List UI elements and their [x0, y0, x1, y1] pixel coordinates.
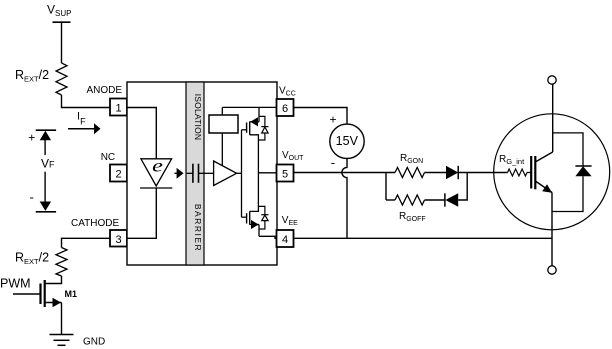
- freewheeling diode D3: [575, 166, 591, 176]
- IGBT Q3: [531, 152, 553, 193]
- UVLO block: [209, 107, 238, 166]
- resistor RG_int: [508, 169, 528, 176]
- svg-text:CATHODE: CATHODE: [71, 218, 119, 229]
- gate rail: [241, 130, 243, 217]
- wire pin 1 to LED anode: [127, 108, 156, 159]
- resistor RGOFF: [395, 195, 425, 205]
- svg-text:5: 5: [282, 169, 288, 181]
- wire collector: [552, 85, 554, 153]
- svg-text:-: -: [30, 190, 34, 205]
- pin 5: [277, 165, 294, 182]
- transistor Q1 high side: [242, 107, 260, 172]
- wire emitter: [551, 193, 553, 266]
- label VEE: [282, 215, 298, 227]
- label CATHODE: [71, 218, 119, 229]
- VEE rail: [259, 236, 277, 238]
- label GND: [83, 337, 105, 348]
- label VCC: [279, 86, 296, 98]
- label REXT/2 lower: [15, 251, 49, 267]
- svg-text:2: 2: [115, 169, 121, 181]
- wire RGON to diode DON: [425, 172, 447, 174]
- label REXT/2 upper: [15, 68, 49, 84]
- resistor REXT/2 lower: [56, 248, 67, 277]
- emitter terminal: [548, 266, 556, 274]
- wire buffer to gate rail: [237, 172, 242, 174]
- label NC: [101, 152, 115, 163]
- wire 15V to VEE with hop: [342, 159, 347, 239]
- svg-text:ANODE: ANODE: [87, 85, 123, 96]
- transistor M1: [13, 276, 62, 307]
- supply terminal VSUP: [53, 21, 71, 23]
- wire lower branch RGOFF: [386, 199, 395, 201]
- svg-text:e: e: [152, 156, 163, 176]
- net VSUP label: [47, 3, 71, 19]
- wire REXT/2 upper to pin 1: [62, 95, 111, 108]
- body diode high side: [258, 116, 268, 140]
- svg-text:NC: NC: [101, 152, 115, 163]
- buffer amplifier: [214, 161, 237, 186]
- wire LED cathode to pin 3: [127, 188, 156, 238]
- svg-text:GND: GND: [83, 337, 105, 348]
- svg-text:PWM: PWM: [0, 277, 31, 291]
- label minus VF: [30, 190, 34, 205]
- node split gate network: [385, 173, 387, 201]
- wire DOFF to junction riser: [458, 173, 467, 201]
- gate driver IC U1 body: [127, 82, 277, 265]
- svg-text:+: +: [330, 112, 337, 126]
- label BARRIER: [193, 204, 203, 252]
- capacitor coupling: [187, 164, 214, 183]
- label VOUT: [282, 150, 304, 162]
- svg-text:BARRIER: BARRIER: [193, 204, 203, 252]
- current arrow IF: [68, 123, 101, 134]
- svg-text:VF: VF: [41, 156, 55, 170]
- output rail to pin 5: [258, 172, 276, 174]
- ground: [50, 335, 74, 346]
- IGBT module circle: [494, 114, 610, 230]
- wire pin 6 to 15V supply: [294, 108, 348, 125]
- optical coupling arrow: [175, 168, 184, 179]
- VCC rail: [222, 106, 276, 108]
- label minus 15V: [331, 155, 335, 170]
- diode DOFF: [445, 193, 458, 206]
- wire DON to gate node: [458, 172, 507, 174]
- pin 3: [110, 230, 127, 247]
- svg-text:1: 1: [115, 103, 121, 115]
- wire RGOFF to diode DOFF: [425, 199, 445, 201]
- isolation barrier: [186, 82, 204, 265]
- voltage source 15V: [330, 124, 364, 158]
- label RGOFF: [399, 211, 426, 223]
- svg-text:+: +: [28, 131, 35, 145]
- label ANODE: [87, 85, 123, 96]
- wire M1 source to ground: [61, 303, 63, 335]
- body diode low side: [258, 206, 268, 229]
- wire VSUP to REXT/2 upper: [61, 22, 63, 63]
- resistor REXT/2 upper: [56, 63, 67, 95]
- svg-text:-: -: [331, 155, 335, 170]
- pin 1: [110, 99, 127, 116]
- label VF: [41, 156, 55, 170]
- label PWM: [0, 277, 31, 291]
- label RGON: [400, 153, 423, 165]
- svg-text:6: 6: [282, 103, 288, 115]
- VEE wire to emitter: [294, 237, 553, 239]
- LED emitter D1: [140, 156, 172, 188]
- label RG_int: [499, 154, 525, 166]
- pin 6: [277, 99, 294, 116]
- svg-text:15V: 15V: [336, 134, 359, 148]
- label IF: [77, 111, 86, 127]
- svg-text:4: 4: [282, 234, 288, 246]
- pin 2: [110, 165, 127, 182]
- voltage annotation VF: [36, 130, 56, 212]
- svg-text:M1: M1: [65, 289, 78, 299]
- collector terminal: [548, 76, 556, 84]
- label plus VF: [28, 131, 35, 145]
- svg-text:3: 3: [115, 234, 121, 246]
- pin 4: [277, 230, 294, 247]
- transistor Q2 low side: [242, 173, 260, 237]
- freewheeling diode branch: [552, 133, 583, 212]
- wire pin 3 to REXT/2 lower: [62, 238, 111, 247]
- label ISOLATION: [193, 94, 203, 141]
- diode DON: [446, 166, 458, 179]
- label M1: [65, 289, 78, 299]
- wire RG_int to gate: [527, 172, 531, 174]
- label plus 15V: [330, 112, 337, 126]
- wire pin 5 VOUT: [294, 172, 396, 174]
- resistor RGON: [395, 168, 425, 178]
- svg-text:ISOLATION: ISOLATION: [193, 94, 203, 141]
